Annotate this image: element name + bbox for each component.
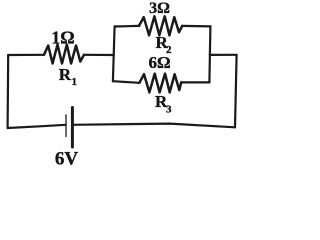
resistor R2 zigzag — [139, 16, 182, 35]
resistor R1 zigzag — [44, 45, 84, 64]
svg-text:6Ω: 6Ω — [148, 53, 170, 72]
wire: box bottom branch right segment — [181, 81, 209, 83]
svg-text:1Ω: 1Ω — [51, 28, 74, 48]
wire: box top branch right segment — [182, 25, 210, 28]
wire: outer left vertical — [6, 55, 9, 128]
svg-text:3: 3 — [166, 104, 172, 116]
wire: box to outer right vertical — [210, 54, 237, 56]
wire: outer right vertical — [235, 55, 237, 128]
svg-text:R: R — [59, 65, 72, 84]
wire: box left vertical — [113, 26, 115, 81]
wire: box right vertical — [209, 26, 210, 82]
battery 6V: short thin plate — [65, 115, 67, 137]
wire: top left horizontal to R1 — [8, 54, 44, 56]
wire: bottom left horizontal to battery — [8, 125, 66, 128]
svg-text:3Ω: 3Ω — [149, 0, 170, 17]
svg-text:1: 1 — [72, 76, 78, 88]
wire: box bottom branch left segment — [113, 81, 139, 83]
wire: box top branch left segment — [115, 25, 139, 28]
resistor R3 zigzag — [139, 74, 181, 93]
battery 6V: long thick plate — [71, 108, 74, 148]
wire: R1 to parallel box — [84, 54, 114, 56]
wire: bottom right horizontal from battery — [72, 124, 235, 128]
svg-text:6V: 6V — [55, 149, 79, 170]
